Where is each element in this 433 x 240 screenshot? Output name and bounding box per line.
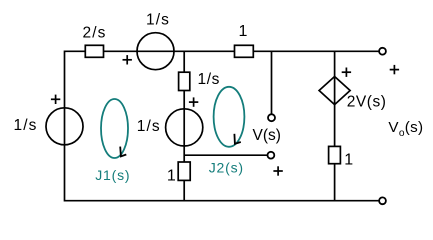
svg-text:1: 1 <box>167 168 176 185</box>
svg-text:1: 1 <box>239 23 248 40</box>
voltage source 1/s (middle) <box>137 109 203 146</box>
polarity + (top source) <box>123 55 132 64</box>
wire left vertical <box>64 51 66 202</box>
resistor 1 (right) <box>329 146 354 168</box>
resistor 1 (middle bottom) <box>167 162 190 185</box>
terminal bottom right <box>379 197 386 204</box>
resistor 2/s <box>83 24 107 57</box>
mesh current loop J1(s) <box>95 99 130 183</box>
background <box>0 0 1 1</box>
svg-text:1/s: 1/s <box>198 71 220 88</box>
svg-text:2V(s): 2V(s) <box>347 94 387 111</box>
wire top horizontal <box>65 50 380 52</box>
polarity + (dependent source) <box>342 68 351 77</box>
polarity + (terminal) <box>273 166 282 175</box>
voltage source 1/s (left) <box>14 108 84 145</box>
polarity + (left source) <box>51 95 60 104</box>
terminal top right <box>379 48 386 55</box>
svg-text:1/s: 1/s <box>137 118 161 135</box>
wire middle branch vertical <box>183 51 185 200</box>
wire V(s) branch vertical <box>271 51 273 114</box>
mesh current loop J2(s) <box>209 87 245 176</box>
node Vo(s) label <box>388 119 423 139</box>
svg-text:1/s: 1/s <box>14 117 38 134</box>
wire bottom horizontal <box>65 200 380 202</box>
resistor 1/s (middle branch) <box>179 71 220 91</box>
voltage source 1/s (top) <box>137 11 174 69</box>
svg-text:1: 1 <box>344 152 353 169</box>
svg-text:J1(s): J1(s) <box>95 167 130 183</box>
dependent source 2V(s) <box>319 77 386 111</box>
wire right branch vertical <box>334 51 336 200</box>
svg-text:J2(s): J2(s) <box>209 160 244 176</box>
polarity + (middle source) <box>189 97 198 106</box>
terminal V(s) node <box>253 114 281 144</box>
terminal plus node <box>268 152 275 159</box>
wire plus-terminal branch horizontal <box>184 154 267 156</box>
svg-text:1/s: 1/s <box>146 11 170 28</box>
svg-text:V(s): V(s) <box>253 127 281 144</box>
resistor 1 (top right) <box>235 23 254 58</box>
svg-text:Vo(s): Vo(s) <box>388 119 423 139</box>
polarity + (output) <box>390 65 399 74</box>
svg-text:2/s: 2/s <box>83 24 107 41</box>
